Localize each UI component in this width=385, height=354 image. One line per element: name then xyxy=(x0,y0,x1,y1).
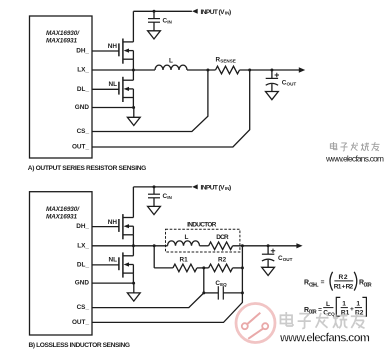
node R1 tap xyxy=(153,244,156,247)
svg-text:MAX16930/: MAX16930/ xyxy=(46,30,80,37)
wire NH drain to input rail B xyxy=(132,187,134,218)
resistor R1 xyxy=(173,264,197,272)
wire GND stub down xyxy=(133,108,135,118)
node COUT tap xyxy=(270,69,273,72)
watermark small chinese text xyxy=(330,142,379,151)
watermark big chinese text xyxy=(280,312,365,329)
IC box U1 MAX16930/MAX16931 xyxy=(30,16,93,158)
wire CS feedback B xyxy=(92,293,204,308)
svg-text:NH: NH xyxy=(108,43,118,50)
node R1-R2 junction xyxy=(202,266,205,269)
svg-text:R1: R1 xyxy=(180,257,189,264)
wire DH to NH gate xyxy=(92,50,119,52)
ground CIN xyxy=(148,31,161,39)
node inductor output xyxy=(241,244,244,247)
svg-text:INPUT (V: INPUT (V xyxy=(201,9,226,16)
inductor model dashed box xyxy=(166,229,240,252)
wire R1 tap down xyxy=(153,246,155,268)
svg-text:A) OUTPUT SERIES RESISTOR SENS: A) OUTPUT SERIES RESISTOR SENSING xyxy=(28,165,147,172)
arrow INPUT (VIN) xyxy=(192,9,198,14)
node CEQ left xyxy=(202,291,205,294)
svg-text:+: + xyxy=(350,306,354,313)
ground CIN B xyxy=(148,206,161,214)
wire CS feedback xyxy=(92,70,208,132)
svg-text:CSHL: CSHL xyxy=(309,282,319,288)
svg-text:B) LOSSLESS INDUCTOR SENSING: B) LOSSLESS INDUCTOR SENSING xyxy=(29,342,131,349)
svg-text:DCR: DCR xyxy=(216,234,229,241)
svg-text:R2: R2 xyxy=(218,257,227,264)
capacitor CEQ xyxy=(218,286,223,299)
node LX junction B xyxy=(132,244,135,247)
wire input rail xyxy=(133,10,192,12)
node LX junction xyxy=(132,69,135,72)
svg-text:MAX16930/: MAX16930/ xyxy=(46,206,80,213)
svg-text:www.elecfans.com: www.elecfans.com xyxy=(325,154,384,164)
node CS feedback tap xyxy=(206,69,209,72)
wire DH to NH gate B xyxy=(92,226,119,228)
svg-text:1: 1 xyxy=(342,301,346,308)
wire to R1 xyxy=(154,267,173,269)
wire R1 to R2 xyxy=(197,267,209,269)
svg-text:MAX16931: MAX16931 xyxy=(46,213,77,220)
ground COUT A xyxy=(266,92,279,100)
svg-text:=: = xyxy=(321,279,325,286)
svg-text:R1 + R2: R1 + R2 xyxy=(334,284,354,291)
svg-text:MAX16931: MAX16931 xyxy=(46,38,77,45)
ground main A xyxy=(127,117,140,125)
node CIN tap xyxy=(153,10,156,13)
svg-text:LX_: LX_ xyxy=(77,67,89,74)
svg-text:OUT_: OUT_ xyxy=(72,144,89,151)
wire DL to NL gate B xyxy=(92,264,119,266)
node GND junction xyxy=(132,106,135,109)
wire NL drain to LX xyxy=(132,70,134,80)
svg-text:=: = xyxy=(318,306,322,313)
svg-text:IN: IN xyxy=(167,195,172,200)
svg-text:): ) xyxy=(229,9,231,16)
svg-text:OUT: OUT xyxy=(287,81,297,86)
node CEQ right xyxy=(241,291,244,294)
wire OUT feedback xyxy=(92,70,250,147)
svg-text:DH_: DH_ xyxy=(76,223,89,230)
transistor NH B xyxy=(119,214,133,239)
capacitor COUT B xyxy=(262,246,275,267)
svg-text:NL: NL xyxy=(108,81,117,88)
wire NH source down to LX xyxy=(132,59,134,70)
ground main B xyxy=(127,293,140,301)
svg-text:IN: IN xyxy=(167,20,172,25)
svg-text:R2: R2 xyxy=(339,274,348,281)
capacitor COUT xyxy=(266,70,279,92)
svg-text:www.elecfans.com: www.elecfans.com xyxy=(279,333,370,345)
svg-text:EQ: EQ xyxy=(220,282,227,287)
wire NL source to GND line xyxy=(132,98,134,108)
capacitor CIN xyxy=(148,11,160,31)
inductor L xyxy=(155,65,187,70)
node COUT tap B xyxy=(267,244,270,247)
svg-text:CS_: CS_ xyxy=(77,128,90,135)
wire R2 to right vertical xyxy=(233,267,243,269)
wire DL to NL gate xyxy=(92,88,119,90)
formula RCSHL xyxy=(304,272,372,291)
svg-text:DCR: DCR xyxy=(309,310,317,316)
wire CEQ left lead xyxy=(204,292,218,294)
wire CEQ right lead xyxy=(223,292,242,294)
wire NL drain to LX B xyxy=(132,246,134,256)
svg-text:DCR: DCR xyxy=(364,282,372,288)
svg-text:OUT_: OUT_ xyxy=(72,319,89,326)
svg-text:NL: NL xyxy=(108,257,117,264)
wire L to DCR xyxy=(200,245,209,247)
wire LX line B xyxy=(92,245,168,247)
svg-text:DH_: DH_ xyxy=(76,48,89,55)
ground COUT B xyxy=(262,267,275,275)
capacitor CIN B xyxy=(148,187,160,207)
svg-text:EQ: EQ xyxy=(328,312,335,317)
formula RDCR xyxy=(304,297,366,316)
svg-text:GND: GND xyxy=(75,280,90,287)
node R2 right junction xyxy=(241,266,244,269)
resistor DCR xyxy=(209,242,233,250)
svg-text:INDUCTOR: INDUCTOR xyxy=(187,222,217,229)
wire NL source to GND line B xyxy=(132,273,134,283)
svg-text:DL_: DL_ xyxy=(77,262,90,269)
wire right vertical feedback xyxy=(92,246,242,323)
wire RSENSE to output xyxy=(240,69,300,71)
resistor RSENSE xyxy=(216,66,240,74)
svg-text:LX_: LX_ xyxy=(77,242,89,249)
svg-text:L: L xyxy=(169,58,173,65)
wire GND stub down B xyxy=(133,283,135,293)
transistor NL xyxy=(119,77,133,102)
wire L to RSENSE xyxy=(187,69,216,71)
wire input rail B xyxy=(133,186,192,188)
wire GND pin B xyxy=(92,282,134,284)
svg-text:L: L xyxy=(185,234,189,241)
svg-text:): ) xyxy=(229,185,231,192)
transistor NH xyxy=(119,39,133,64)
svg-text:OUT: OUT xyxy=(283,257,293,262)
node CIN tap B xyxy=(153,185,156,188)
wire GND pin xyxy=(92,107,134,109)
svg-text:INPUT (V: INPUT (V xyxy=(201,185,226,192)
node GND junction B xyxy=(132,282,135,285)
svg-text:1: 1 xyxy=(356,301,360,308)
transistor NL B xyxy=(119,252,133,277)
svg-text:DL_: DL_ xyxy=(77,86,90,93)
inductor L B xyxy=(168,241,200,246)
wire R1R2 junction down to CEQ line xyxy=(203,268,205,293)
node OUT feedback tap xyxy=(248,69,251,72)
svg-text:NH: NH xyxy=(108,219,118,226)
wire LX line xyxy=(92,69,155,71)
wire NH drain to input rail xyxy=(132,11,134,42)
svg-text:SENSE: SENSE xyxy=(220,59,236,64)
watermark logo ring xyxy=(236,304,275,343)
wire NH source to LX B xyxy=(132,235,134,246)
arrow INPUT (VIN) B xyxy=(192,184,198,189)
wire DCR to output node xyxy=(233,245,297,247)
resistor R2 xyxy=(209,264,233,272)
svg-text:CS_: CS_ xyxy=(77,304,90,311)
svg-text:GND: GND xyxy=(75,104,90,111)
arrow output A xyxy=(299,67,305,72)
arrow output B xyxy=(296,243,302,248)
IC box U2 MAX16930/MAX16931 xyxy=(30,192,93,335)
